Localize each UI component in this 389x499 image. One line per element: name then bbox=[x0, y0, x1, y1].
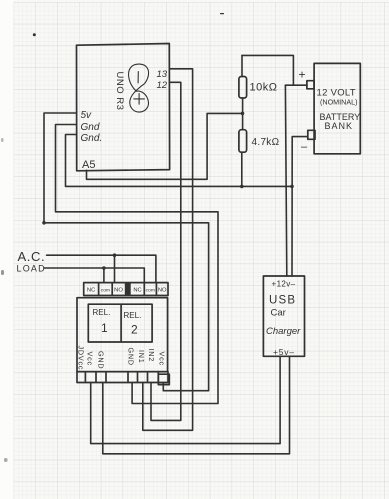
svg-text:Gnd.: Gnd. bbox=[81, 133, 103, 144]
svg-text:NO: NO bbox=[114, 288, 123, 294]
svg-text:Vcc: Vcc bbox=[158, 352, 167, 366]
svg-text:NO: NO bbox=[158, 288, 167, 294]
svg-text:Vcc: Vcc bbox=[86, 352, 95, 366]
svg-text:NC: NC bbox=[133, 288, 141, 294]
svg-text:UNO R3: UNO R3 bbox=[114, 72, 125, 111]
svg-text:com: com bbox=[146, 289, 155, 294]
svg-text:13: 13 bbox=[157, 69, 168, 80]
svg-text:NC: NC bbox=[87, 288, 95, 294]
svg-text:Car: Car bbox=[271, 308, 286, 319]
svg-text:BANK: BANK bbox=[325, 121, 354, 131]
svg-text:IN1: IN1 bbox=[137, 350, 146, 364]
svg-text:(NOMINAL): (NOMINAL) bbox=[320, 98, 358, 107]
svg-text:+: + bbox=[299, 68, 306, 82]
svg-text:REL.: REL. bbox=[93, 308, 111, 317]
svg-text:A5: A5 bbox=[82, 159, 95, 171]
svg-text:USB: USB bbox=[269, 295, 296, 307]
svg-text:1: 1 bbox=[101, 321, 108, 335]
svg-text:com: com bbox=[101, 289, 110, 294]
svg-text:Gnd: Gnd bbox=[81, 122, 100, 133]
svg-text:4.7kΩ: 4.7kΩ bbox=[252, 137, 280, 148]
svg-text:A.C.: A.C. bbox=[18, 249, 46, 264]
svg-text:Charger: Charger bbox=[266, 326, 301, 337]
svg-text:10kΩ: 10kΩ bbox=[250, 82, 278, 94]
svg-text:2: 2 bbox=[131, 323, 138, 337]
svg-text:12: 12 bbox=[157, 80, 168, 91]
svg-text:LOAD: LOAD bbox=[17, 264, 46, 274]
svg-text:GND: GND bbox=[97, 351, 106, 369]
svg-text:–: – bbox=[301, 141, 308, 153]
svg-text:5v: 5v bbox=[81, 110, 93, 121]
svg-text:+12v–: +12v– bbox=[272, 280, 296, 289]
svg-text:JDVcc: JDVcc bbox=[76, 346, 85, 371]
svg-text:REL.: REL. bbox=[124, 311, 142, 320]
svg-text:IN2: IN2 bbox=[147, 349, 156, 363]
svg-text:GND: GND bbox=[126, 348, 135, 366]
svg-text:+5v–: +5v– bbox=[273, 347, 295, 357]
